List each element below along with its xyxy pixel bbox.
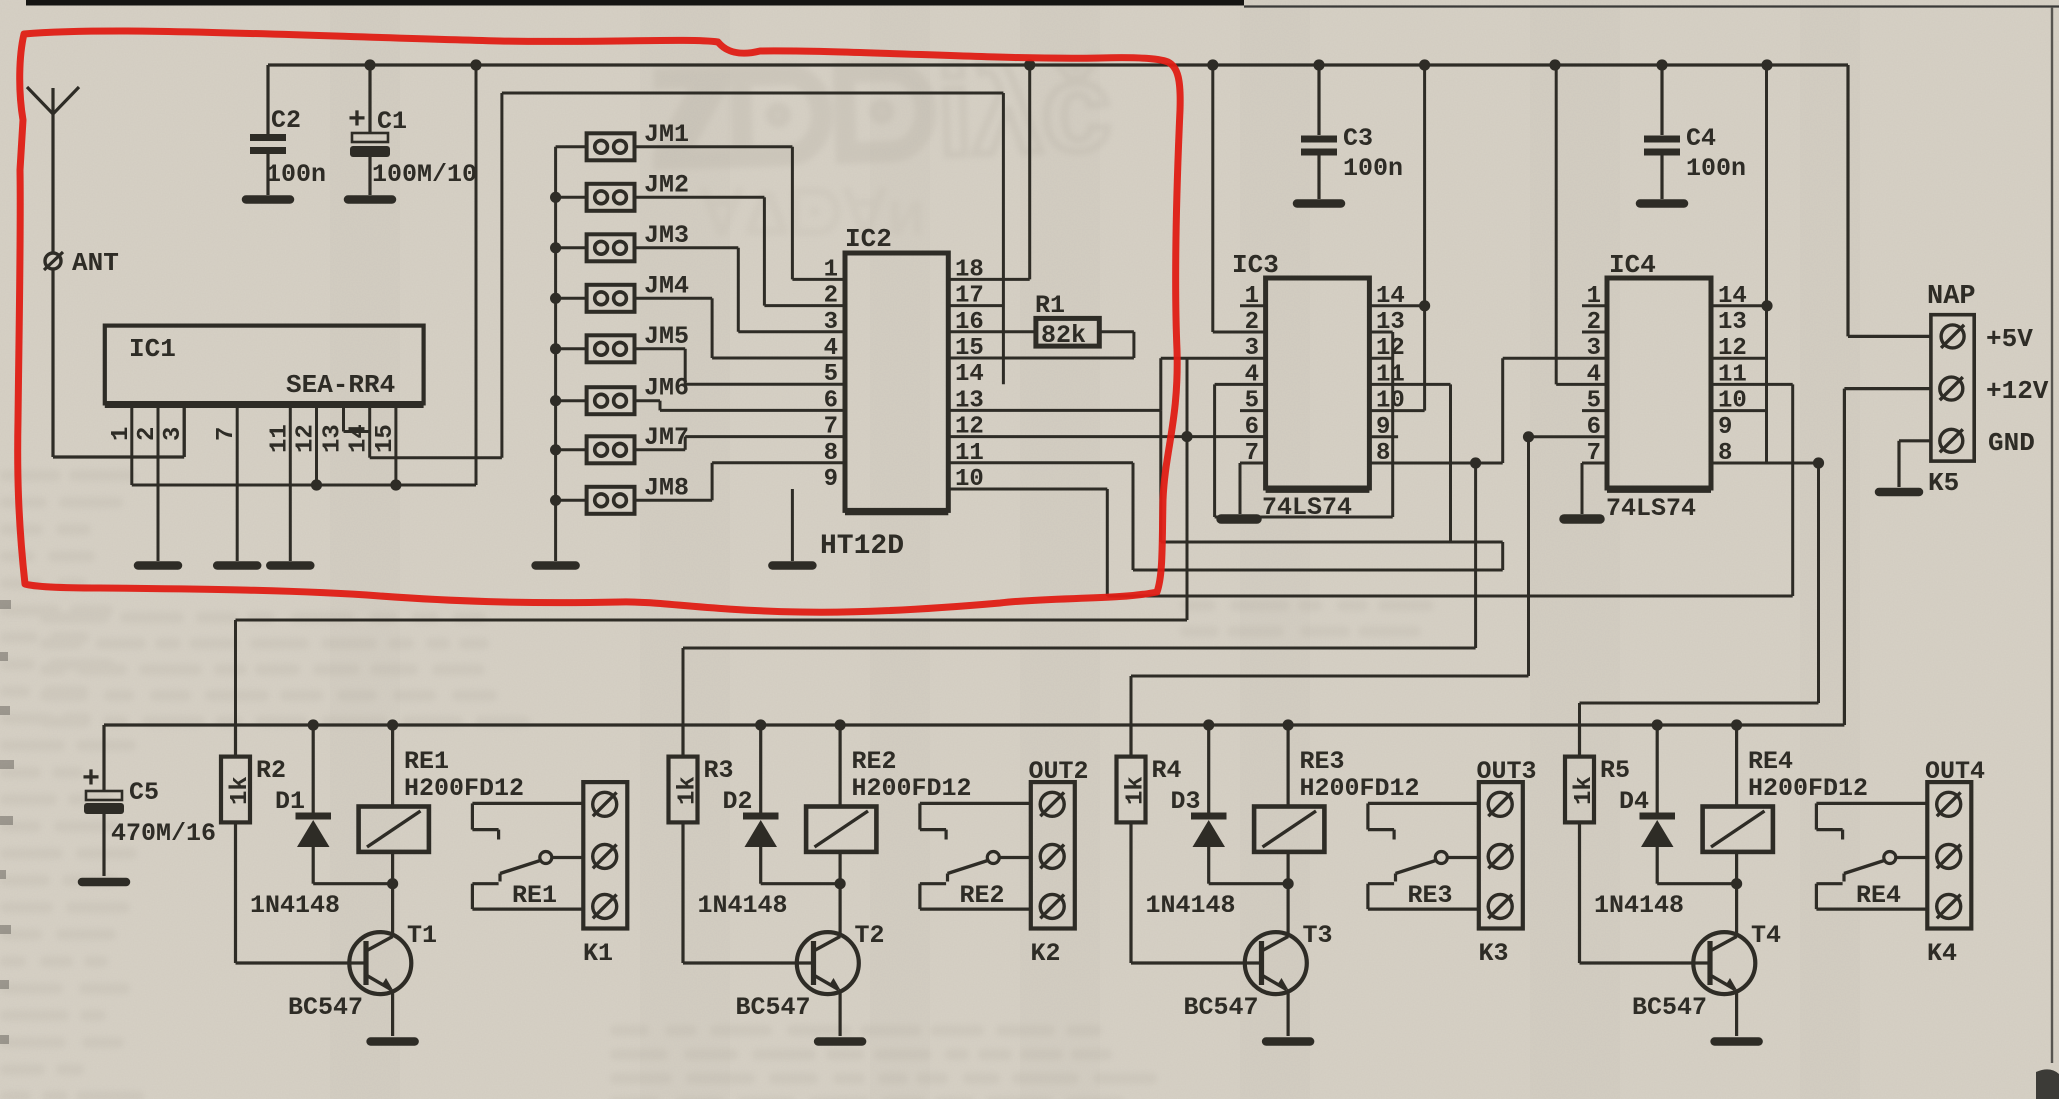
- wire row C: [1107, 595, 1792, 598]
- svg-text:C3: C3: [1343, 124, 1373, 153]
- svg-text:74LS74: 74LS74: [1606, 494, 1696, 523]
- svg-text:T3: T3: [1303, 921, 1333, 950]
- node bus-IC4 pin14 junction: [1761, 59, 1772, 70]
- wire IC4 pin8 down to row G: [1817, 463, 1820, 703]
- svg-text:C2: C2: [271, 106, 301, 135]
- svg-text:RE2: RE2: [960, 881, 1005, 910]
- K1 screw bottom: [593, 894, 617, 918]
- wire IC1 pin1 to +5V: [132, 484, 476, 487]
- wire bus to +5V: [1846, 65, 1849, 336]
- transistor T3 BC547: [1245, 932, 1307, 994]
- contact RE4 NO hook: [1816, 907, 1927, 910]
- svg-text:BC547: BC547: [288, 993, 363, 1022]
- svg-text:K1: K1: [583, 939, 613, 968]
- ground C3: [1297, 199, 1341, 208]
- svg-text:OUT4: OUT4: [1925, 757, 1985, 786]
- wire JM1 to IC2 pin1: [635, 145, 793, 148]
- contact RE2 NC hook: [920, 802, 1031, 805]
- wire IC3 pin8 up to IC4 pin3: [1501, 358, 1504, 463]
- K1 screw top: [593, 792, 617, 816]
- svg-text:R2: R2: [256, 756, 286, 785]
- svg-text:GND: GND: [1988, 428, 2035, 458]
- svg-text:R5: R5: [1600, 756, 1630, 785]
- ground IC1 pin7: [217, 561, 257, 570]
- svg-text:RE1: RE1: [512, 881, 557, 910]
- wire branch to IC3 pin6 line: [1186, 358, 1189, 436]
- node bus-IC1 junction: [470, 59, 481, 70]
- wire IC1 pin14 to IC2 pin14: [370, 456, 502, 459]
- svg-text:12: 12: [293, 424, 320, 453]
- wire +12V to rail: [1844, 387, 1931, 390]
- ground C4: [1640, 199, 1684, 208]
- capacitor C3: [1317, 65, 1320, 135]
- connector K2 body: [1031, 782, 1075, 928]
- svg-text:RE3: RE3: [1300, 747, 1345, 776]
- node D4 rail junction: [1652, 719, 1663, 730]
- wire IC4 pin14 to bus and pin12 pin10 pin8: [1711, 304, 1767, 307]
- wire ANT to IC1 pin3: [53, 455, 184, 458]
- K5 terminal +5V: [1941, 325, 1964, 348]
- IC1 pin 3 lead: [183, 403, 186, 457]
- wire IC2 pin12 to IC3 pin6: [948, 435, 1265, 438]
- svg-text:D2: D2: [723, 787, 753, 816]
- IC IC3 74LS74 body: [1266, 278, 1370, 488]
- K5 terminal GND: [1940, 429, 1963, 452]
- node pin15 junction: [390, 479, 401, 490]
- ground T1: [371, 1037, 415, 1046]
- resistor R4: [1117, 757, 1146, 823]
- K4 screw top: [1937, 792, 1961, 816]
- wire row G: [1580, 702, 1819, 705]
- svg-text:RE4: RE4: [1748, 747, 1793, 776]
- svg-text:H200FD12: H200FD12: [1300, 774, 1420, 803]
- svg-text:RE1: RE1: [404, 747, 449, 776]
- transistor T2 BC547: [797, 932, 859, 994]
- wire JM6 left lead: [556, 399, 587, 402]
- svg-text:JM4: JM4: [644, 271, 689, 300]
- jumper JM8: [587, 487, 635, 514]
- IC IC1 SEA-RR4 body: [105, 326, 424, 404]
- wire JM5 to IC2 pin5: [635, 347, 686, 350]
- node bus-IC3 pin2 junction: [1207, 59, 1218, 70]
- K2 screw middle: [1040, 844, 1064, 868]
- node T1 collector junction: [387, 878, 398, 889]
- svg-text:OUT3: OUT3: [1477, 757, 1537, 786]
- resistor R5: [1565, 757, 1594, 823]
- wire IC4 pin11 to row C: [1711, 383, 1793, 386]
- K1 screw middle: [593, 844, 617, 868]
- ground T3: [1266, 1037, 1310, 1046]
- node pin12 junction: [311, 479, 322, 490]
- K5 terminal +12V: [1940, 377, 1963, 400]
- contact RE4 NC hook: [1816, 802, 1927, 805]
- svg-text:17: 17: [955, 283, 984, 310]
- wire IC2 pin17 stub: [948, 304, 1003, 307]
- node JM6 bus junction: [550, 395, 561, 406]
- wire +5V top bus: [268, 63, 1848, 66]
- wire JM2 left lead: [556, 196, 587, 199]
- svg-text:14: 14: [955, 361, 984, 388]
- svg-text:2: 2: [134, 427, 161, 441]
- svg-text:K3: K3: [1479, 939, 1509, 968]
- transistor T4 BC547: [1693, 932, 1755, 994]
- contact RE2 NO hook: [920, 907, 1031, 910]
- jumper JM7: [587, 436, 635, 463]
- wire JM6 to IC2 pin6: [635, 399, 661, 402]
- connector K1 body: [583, 782, 627, 928]
- svg-text:1: 1: [108, 427, 135, 441]
- svg-text:1: 1: [824, 256, 838, 283]
- resistor R3: [669, 757, 698, 823]
- svg-text:C1: C1: [377, 107, 407, 136]
- diode D3: [1207, 725, 1210, 814]
- node T2 collector junction: [835, 878, 846, 889]
- resistor R2: [221, 757, 250, 823]
- IC IC4 74LS74 body: [1607, 278, 1711, 488]
- svg-text:RE2: RE2: [852, 747, 897, 776]
- svg-text:K4: K4: [1927, 939, 1957, 968]
- svg-text:NAP: NAP: [1927, 282, 1976, 312]
- wire IC4 pin6 net: [1529, 435, 1608, 438]
- wire IC3 pin8 down to row E: [1474, 463, 1477, 648]
- capacitor C1 electrolytic: [368, 65, 371, 133]
- wire D3 RE3 T3 node: [1209, 882, 1288, 885]
- node JM7 bus junction: [550, 444, 561, 455]
- node bus-C3 junction: [1313, 59, 1324, 70]
- svg-text:13: 13: [1718, 309, 1747, 336]
- wire bus to IC3 pin2: [1211, 65, 1214, 332]
- wire JM7 left lead: [556, 448, 587, 451]
- wire row B: [1133, 569, 1503, 572]
- svg-text:JM6: JM6: [644, 374, 689, 403]
- svg-text:D3: D3: [1171, 787, 1201, 816]
- wire IC1 pin13-pin14 tie: [344, 430, 370, 433]
- svg-text:9: 9: [1718, 414, 1732, 441]
- svg-text:5: 5: [824, 361, 838, 388]
- svg-text:SEA-RR4: SEA-RR4: [286, 370, 395, 400]
- jumper JM1: [587, 133, 635, 160]
- wire JM5 left lead: [556, 347, 587, 350]
- svg-text:C4: C4: [1686, 124, 1716, 153]
- svg-text:JM7: JM7: [644, 423, 689, 452]
- wire +12V rail: [104, 723, 1844, 726]
- ground JM bus: [536, 561, 576, 570]
- svg-text:RE3: RE3: [1408, 881, 1453, 910]
- node IC3 pin14 junction: [1419, 300, 1430, 311]
- contact RE3 NO hook: [1368, 907, 1479, 910]
- node JM2 bus junction: [550, 192, 561, 203]
- svg-text:100n: 100n: [266, 160, 326, 189]
- svg-text:+5V: +5V: [1986, 324, 2033, 354]
- contact RE3 NC hook: [1368, 802, 1479, 805]
- diode D2: [759, 725, 762, 814]
- svg-text:T1: T1: [407, 921, 437, 950]
- svg-text:6: 6: [824, 387, 838, 414]
- wire JM2 to IC2 pin2: [635, 196, 765, 199]
- ground IC2 pin9: [791, 489, 794, 561]
- svg-text:1N4148: 1N4148: [698, 891, 788, 920]
- svg-text:ANT: ANT: [72, 248, 119, 278]
- svg-text:IC1: IC1: [129, 334, 176, 364]
- node bus-IC3 pin14 junction: [1419, 59, 1430, 70]
- svg-text:7: 7: [824, 414, 838, 441]
- contact RE1 NC hook: [472, 802, 583, 805]
- svg-text:15: 15: [372, 424, 399, 453]
- wire JM7 to IC2 pin7: [635, 448, 686, 451]
- ground IC3 pin7: [1240, 462, 1266, 465]
- wire IC2 pin18 to bus: [948, 278, 1029, 281]
- svg-text:JM3: JM3: [644, 221, 689, 250]
- svg-text:H200FD12: H200FD12: [404, 774, 524, 803]
- svg-text:+: +: [348, 104, 366, 138]
- node JM5 bus junction: [550, 343, 561, 354]
- node JM4 bus junction: [550, 293, 561, 304]
- svg-text:ⱯΔᗠⱯи: ⱯΔᗠⱯи: [699, 177, 926, 249]
- diode D1: [312, 725, 315, 814]
- node bus-C1 junction: [364, 59, 375, 70]
- capacitor C4: [1660, 65, 1663, 135]
- svg-text:RE4: RE4: [1856, 881, 1901, 910]
- K3 screw top: [1488, 792, 1512, 816]
- svg-text:H200FD12: H200FD12: [852, 774, 972, 803]
- relay RE4 coil: [1735, 725, 1738, 807]
- wire IC2 pin11 to row B: [948, 461, 1133, 464]
- IC1 pin 1 lead: [130, 403, 133, 485]
- K3 screw middle: [1488, 844, 1512, 868]
- IC1 pin 15 lead: [394, 403, 397, 485]
- svg-text:IC4: IC4: [1609, 250, 1656, 280]
- node JM3 bus junction: [550, 242, 561, 253]
- svg-text:100M/10: 100M/10: [372, 160, 477, 189]
- relay RE2 coil: [838, 725, 841, 807]
- wire IC3 pin1 stub: [1240, 304, 1266, 307]
- wire IC4 pin1 stub: [1582, 304, 1607, 307]
- jumper JM5: [587, 335, 635, 362]
- connector K4 body: [1927, 782, 1971, 928]
- IC1 pin 2 lead: [157, 403, 160, 561]
- svg-text:9: 9: [824, 466, 838, 493]
- jumper JM6: [587, 387, 635, 414]
- svg-text:100n: 100n: [1343, 154, 1403, 183]
- wire JM4 left lead: [556, 297, 587, 300]
- svg-text:T4: T4: [1751, 921, 1781, 950]
- contact RE1 NO hook: [472, 907, 583, 910]
- ground C1: [348, 195, 392, 204]
- ground K5: [1879, 488, 1919, 497]
- wire IC4 pin2 stub: [1582, 331, 1607, 334]
- node RE2 rail junction: [835, 719, 846, 730]
- node bus-IC4 pin2 junction: [1549, 59, 1560, 70]
- red highlight rectangle: [18, 31, 1181, 612]
- node IC4 pin8 junction: [1813, 457, 1824, 468]
- jumper JM2: [587, 184, 635, 211]
- wire D2 RE2 T2 node: [761, 882, 840, 885]
- ground C5: [82, 878, 126, 887]
- K4 screw bottom: [1937, 894, 1961, 918]
- svg-text:3: 3: [1587, 335, 1601, 362]
- wire JM3 to IC2 pin3: [635, 246, 739, 249]
- node bus-C4 junction: [1656, 59, 1667, 70]
- wire row A: [1161, 541, 1503, 544]
- svg-text:3: 3: [160, 427, 187, 441]
- IC1 pin 7 lead: [236, 403, 239, 561]
- node IC4 pin14 junction: [1761, 300, 1772, 311]
- svg-text:1N4148: 1N4148: [1594, 891, 1684, 920]
- node IC3 pin8 junction: [1470, 457, 1481, 468]
- K4 screw middle: [1937, 844, 1961, 868]
- wire IC4 pin6 down to row F: [1527, 437, 1530, 676]
- capacitor C5 electrolytic: [102, 725, 105, 791]
- svg-text:8: 8: [824, 440, 838, 467]
- wire bus to IC4 pin4: [1555, 65, 1558, 384]
- svg-text:BC547: BC547: [1184, 993, 1259, 1022]
- svg-text:6: 6: [1245, 414, 1259, 441]
- svg-text:13: 13: [320, 424, 347, 453]
- svg-text:K5: K5: [1928, 468, 1959, 498]
- connector K3 body: [1479, 782, 1523, 928]
- wire IC2 pin13 to row A: [948, 409, 1161, 412]
- svg-text:100n: 100n: [1686, 154, 1746, 183]
- wire JM1 left lead: [556, 145, 587, 148]
- svg-text:14: 14: [346, 424, 373, 453]
- wire IC3 pin8 net: [1369, 462, 1502, 465]
- svg-text:1k: 1k: [675, 776, 702, 805]
- node D1 rail junction: [308, 719, 319, 730]
- wire D1 RE1 T1 node: [313, 882, 392, 885]
- node D2 rail junction: [755, 719, 766, 730]
- jumper JM3: [587, 234, 635, 261]
- ground C2: [246, 195, 290, 204]
- diode D4: [1656, 725, 1659, 814]
- svg-text:OUT2: OUT2: [1029, 757, 1089, 786]
- connector K5 body: [1931, 315, 1974, 461]
- svg-text:1k: 1k: [227, 776, 254, 805]
- svg-text:7: 7: [213, 427, 240, 441]
- node RE4 rail junction: [1731, 719, 1742, 730]
- wire IC3 pin5 stub: [1240, 409, 1266, 412]
- relay RE3 coil: [1286, 725, 1289, 807]
- wire JM8 left lead: [556, 499, 587, 502]
- svg-text:82k: 82k: [1041, 321, 1086, 350]
- svg-text:K2: K2: [1031, 939, 1061, 968]
- capacitor C2: [266, 65, 269, 134]
- svg-text:D1: D1: [275, 787, 305, 816]
- K3 screw bottom: [1488, 894, 1512, 918]
- K2 screw bottom: [1040, 894, 1064, 918]
- ground T2: [818, 1037, 862, 1046]
- svg-text:470M/16: 470M/16: [111, 819, 216, 848]
- resistor R1: [1036, 318, 1099, 346]
- wire IC3 pin9 stub: [1369, 435, 1398, 438]
- contact RE1 pole: [552, 856, 584, 859]
- antenna ANT: [27, 87, 79, 114]
- IC1 pin 13 lead: [342, 403, 345, 431]
- wire JM3 left lead: [556, 246, 587, 249]
- wire GND hook: [1899, 439, 1931, 442]
- wire row F: [1131, 675, 1529, 678]
- wire IC3 pin4 loop to pin12 pin13: [1215, 383, 1266, 386]
- jumper JM4: [587, 285, 635, 312]
- svg-text:JM2: JM2: [644, 170, 689, 199]
- wire D4 RE4 T4 node: [1657, 882, 1736, 885]
- wire IC2 pin10 to row C: [948, 488, 1107, 491]
- svg-text:+: +: [82, 763, 100, 797]
- svg-text:H200FD12: H200FD12: [1748, 774, 1868, 803]
- contact RE3 pole: [1447, 856, 1479, 859]
- wire R1 to IC2 pin15: [1099, 330, 1134, 333]
- svg-text:1N4148: 1N4148: [1146, 891, 1236, 920]
- wire net to IC3 pin3: [1161, 357, 1266, 360]
- relay RE1 coil: [391, 725, 394, 807]
- svg-text:JM5: JM5: [644, 322, 689, 351]
- svg-text:T2: T2: [855, 921, 885, 950]
- svg-text:4: 4: [824, 335, 838, 362]
- node JM8 bus junction: [550, 495, 561, 506]
- svg-text:C5: C5: [129, 778, 159, 807]
- ground IC1 pin2: [138, 561, 178, 570]
- wire row D: [236, 619, 1188, 622]
- wire IC2 pin16 stub: [948, 330, 1036, 333]
- svg-text:IC3: IC3: [1232, 250, 1279, 280]
- svg-text:D4: D4: [1619, 787, 1649, 816]
- IC1 pin 12 lead: [315, 403, 318, 485]
- svg-text:IC2: IC2: [845, 224, 892, 254]
- node RE1 rail junction: [387, 719, 398, 730]
- node D3 rail junction: [1203, 719, 1214, 730]
- svg-text:2: 2: [824, 283, 838, 310]
- contact RE4 pole: [1896, 856, 1928, 859]
- svg-text:1k: 1k: [1123, 776, 1150, 805]
- wire JM8 to IC2 pin8: [635, 499, 713, 502]
- svg-text:1k: 1k: [1571, 776, 1598, 805]
- wire IC3 pin11 to row A: [1369, 383, 1450, 386]
- svg-text:3: 3: [1245, 335, 1259, 362]
- IC1 pin 14 lead: [368, 403, 371, 457]
- wire IC4 pin5 stub: [1582, 409, 1607, 412]
- svg-text:R4: R4: [1152, 756, 1182, 785]
- node T4 collector junction: [1731, 878, 1742, 889]
- svg-text:JM8: JM8: [644, 473, 689, 502]
- svg-text:HT12D: HT12D: [820, 531, 904, 562]
- wire JM4 to IC2 pin4: [635, 297, 713, 300]
- wire branch down to row D: [1186, 437, 1189, 620]
- wire JM common bus: [554, 147, 557, 561]
- ground T4: [1715, 1037, 1759, 1046]
- node RE3 rail junction: [1283, 719, 1294, 730]
- svg-text:BC547: BC547: [1632, 993, 1707, 1022]
- ground IC4 pin7: [1582, 462, 1607, 465]
- contact RE2 pole: [999, 856, 1031, 859]
- svg-text:R3: R3: [704, 756, 734, 785]
- IC IC2 HT12D body: [845, 253, 948, 510]
- wire row E: [683, 647, 1476, 650]
- K2 screw top: [1040, 792, 1064, 816]
- IC1 pin 11 lead: [289, 403, 292, 561]
- svg-text:R1: R1: [1035, 291, 1065, 320]
- transistor T1 BC547: [349, 932, 411, 994]
- ground IC1 pin11: [270, 561, 310, 570]
- wire IC4 pin8 net: [1711, 462, 1819, 465]
- svg-text:1N4148: 1N4148: [250, 891, 340, 920]
- svg-text:11: 11: [266, 424, 293, 453]
- svg-text:3: 3: [824, 309, 838, 336]
- svg-text:BC547: BC547: [736, 993, 811, 1022]
- svg-text:+12V: +12V: [1986, 376, 2049, 406]
- node IC4 pin6 junction: [1523, 431, 1534, 442]
- node T3 collector junction: [1283, 878, 1294, 889]
- svg-text:JM1: JM1: [644, 120, 689, 149]
- wire IC3 pin14 to bus and pin10: [1369, 304, 1424, 307]
